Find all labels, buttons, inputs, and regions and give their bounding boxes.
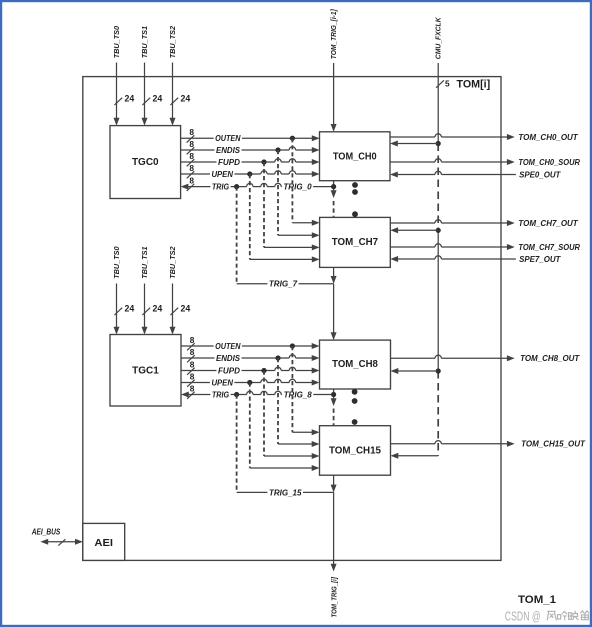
block AEI — [83, 523, 125, 560]
output TOM_TRIG_[i] from TOM_CH15 bottom — [329, 475, 338, 617]
svg-text:ENDIS: ENDIS — [216, 146, 241, 155]
junction dot TRIG drop (TGC0) — [234, 184, 239, 189]
svg-text:8: 8 — [190, 371, 195, 381]
wire FUPD drop to next channel block (TGC0) — [264, 162, 320, 250]
wire TRIG drop / TRIG_7 net (TGC0) — [237, 187, 334, 289]
output TOM_CH8_OUT — [391, 354, 581, 363]
wire TRIG (feedback into TGC1) — [181, 390, 334, 399]
block TGC1 — [110, 335, 181, 407]
wire UPEN drop to next channel block (TGC1) — [250, 383, 320, 472]
wire ENDIS (TGC0 to channels) — [181, 146, 320, 155]
junction dot clock/TOM_CH8 — [436, 368, 441, 373]
bus width slash 8 on TRIG (TGC1) — [187, 383, 195, 398]
caption TOM_1 — [518, 594, 557, 606]
block TOM_CH7 — [320, 217, 391, 267]
input SPE7_OUT — [390, 255, 561, 264]
junction dot OUTEN drop (TGC0) — [290, 136, 295, 141]
wire CMU_FXCLK distribution (clock net) — [437, 144, 439, 456]
svg-text:SPE7_OUT: SPE7_OUT — [519, 255, 561, 264]
wire ENDIS drop to next channel block (TGC1) — [278, 358, 320, 447]
wire clock to TOM_CH15 — [391, 453, 439, 459]
svg-text:8: 8 — [190, 359, 195, 369]
junction dot clock/TOM_CH7 — [436, 228, 441, 233]
junction dot ENDIS drop (TGC1) — [275, 355, 280, 360]
output TOM_CH7_OUT — [390, 219, 579, 228]
svg-text:TOM_1: TOM_1 — [518, 594, 557, 606]
output TOM_CH0_SOUR — [390, 158, 580, 167]
svg-text:TBU_TS2: TBU_TS2 — [168, 246, 177, 278]
svg-text:TRIG_0: TRIG_0 — [283, 183, 312, 192]
label TOM[i] — [457, 79, 491, 91]
wire OUTEN (TGC0 to channels) — [181, 134, 320, 143]
bus width slash 8 on UPEN (TGC1) — [187, 371, 195, 386]
wire clock to TOM_CH7 — [390, 227, 438, 233]
wire TRIG_0 from TOM_CH0 bottom (trigger chain) — [331, 181, 337, 217]
svg-text:TOM_CH0_SOUR: TOM_CH0_SOUR — [518, 158, 580, 167]
input CMU_FXCLK — [434, 17, 443, 144]
svg-text:UPEN: UPEN — [211, 378, 233, 387]
input TBU_TS1 (to TGC0) — [140, 26, 149, 126]
svg-text:TOM_CH7: TOM_CH7 — [332, 236, 378, 248]
ellipsis channels 1..6 — [352, 182, 358, 217]
svg-text:TOM_CH8: TOM_CH8 — [332, 358, 378, 370]
svg-text:TOM_CH8_OUT: TOM_CH8_OUT — [520, 354, 580, 363]
wire FUPD drop to next channel block (TGC1) — [264, 371, 320, 460]
bus width slash 8 on TRIG (TGC0) — [187, 176, 195, 191]
svg-text:TOM_CH7_OUT: TOM_CH7_OUT — [518, 219, 578, 228]
svg-text:24: 24 — [125, 94, 135, 104]
wire ENDIS (TGC1 to channels) — [181, 354, 320, 363]
bus width slash 8 on FUPD (TGC0) — [187, 151, 195, 166]
bus width slash 24 on TBU_TS2 (TGC1) — [170, 304, 190, 316]
svg-text:TBU_TS0: TBU_TS0 — [112, 26, 121, 58]
bus width slash 24 on TBU_TS2 — [170, 94, 190, 106]
wire OUTEN (TGC1 to channels) — [181, 342, 320, 351]
wire TRIG (feedback into TGC0) — [181, 182, 334, 191]
bus width slash 8 on OUTEN (TGC1) — [187, 335, 195, 350]
svg-text:TGC1: TGC1 — [132, 365, 159, 376]
svg-text:5: 5 — [445, 79, 450, 89]
wire FUPD (TGC1 to channels) — [181, 366, 320, 375]
svg-text:TOM_TRIG_[i-1]: TOM_TRIG_[i-1] — [329, 9, 338, 60]
input TOM_TRIG_[i-1] — [329, 9, 338, 132]
bus width slash 8 on OUTEN (TGC0) — [187, 127, 195, 142]
input SPE0_OUT — [390, 170, 562, 179]
wire clock to TOM_CH0 — [390, 141, 438, 147]
svg-text:8: 8 — [190, 347, 195, 357]
bus width slash 24 on TBU_TS0 (TGC1) — [114, 304, 134, 316]
svg-text:TBU_TS1: TBU_TS1 — [140, 26, 149, 58]
svg-text:OUTEN: OUTEN — [215, 342, 241, 351]
svg-text:24: 24 — [153, 94, 163, 104]
svg-text:24: 24 — [181, 94, 191, 104]
input TBU_TS2 (to TGC0) — [168, 26, 177, 126]
label TRIG_8 net — [282, 390, 313, 399]
label TRIG_0 net — [282, 182, 313, 191]
wire OUTEN drop to next channel block (TGC1) — [292, 346, 319, 435]
svg-text:TRIG: TRIG — [212, 390, 229, 399]
bus width slash 8 on UPEN (TGC0) — [187, 163, 195, 178]
svg-text:TBU_TS1: TBU_TS1 — [140, 246, 149, 278]
svg-text:FUPD: FUPD — [218, 158, 240, 167]
svg-text:TOM_TRIG_[i]: TOM_TRIG_[i] — [329, 577, 338, 618]
wire UPEN (TGC0 to channels) — [181, 170, 320, 179]
wire ENDIS drop to next channel block (TGC0) — [278, 150, 320, 238]
input TBU_TS1 (to TGC1) — [140, 246, 149, 334]
watermark — [505, 608, 589, 623]
wire UPEN drop to next channel block (TGC0) — [250, 174, 320, 262]
svg-text:TRIG: TRIG — [212, 183, 229, 192]
junction dot UPEN drop (TGC0) — [247, 171, 252, 176]
block TOM_CH8 — [320, 340, 391, 389]
bus width slash 24 on TBU_TS0 — [114, 94, 134, 106]
wire TRIG drop / TRIG_15 net (TGC1) — [237, 395, 334, 498]
svg-text:8: 8 — [189, 127, 194, 137]
wire AEI_BUS (bidirectional) — [40, 539, 82, 546]
svg-text:TOM_CH0: TOM_CH0 — [333, 151, 377, 163]
input TBU_TS0 (to TGC0) — [112, 26, 121, 126]
svg-text:8: 8 — [190, 335, 195, 345]
junction dot FUPD drop (TGC0) — [261, 159, 266, 164]
block TGC0 — [110, 126, 181, 199]
svg-text:AEI_BUS: AEI_BUS — [31, 527, 61, 536]
svg-text:UPEN: UPEN — [211, 170, 233, 179]
svg-text:TOM_CH7_SOUR: TOM_CH7_SOUR — [518, 243, 580, 252]
svg-text:TRIG_15: TRIG_15 — [269, 488, 302, 497]
label AEI_BUS — [31, 527, 61, 536]
svg-text:TRIG_7: TRIG_7 — [269, 280, 298, 289]
svg-text:OUTEN: OUTEN — [215, 134, 241, 143]
svg-text:TGC0: TGC0 — [132, 157, 159, 168]
svg-text:CSDN @: CSDN @ — [505, 608, 541, 623]
svg-text:TOM_CH15: TOM_CH15 — [329, 444, 381, 456]
svg-text:24: 24 — [153, 304, 163, 314]
bus width slash 24 on TBU_TS1 (TGC1) — [142, 304, 162, 316]
svg-text:TRIG_8: TRIG_8 — [284, 390, 313, 399]
junction dot TRIG drop (TGC1) — [234, 392, 239, 397]
input TBU_TS2 (to TGC1) — [168, 246, 177, 334]
svg-text:24: 24 — [181, 304, 191, 314]
output TOM_CH15_OUT — [391, 440, 587, 449]
module boundary box TOM[i] — [83, 77, 501, 561]
svg-text:24: 24 — [125, 304, 135, 314]
svg-text:TOM_CH0_OUT: TOM_CH0_OUT — [518, 133, 578, 142]
svg-text:8: 8 — [189, 176, 194, 186]
junction dot UPEN drop (TGC1) — [247, 380, 252, 385]
junction dot ENDIS drop (TGC0) — [275, 147, 280, 152]
svg-text:TBU_TS2: TBU_TS2 — [168, 26, 177, 58]
block TOM_CH15 — [320, 426, 391, 476]
wire UPEN (TGC1 to channels) — [181, 378, 320, 387]
output TOM_CH7_SOUR — [390, 243, 580, 252]
svg-text:8: 8 — [190, 383, 195, 393]
bus width slash 8 on FUPD (TGC1) — [187, 359, 195, 374]
svg-text:TBU_TS0: TBU_TS0 — [112, 246, 121, 278]
svg-text:ENDIS: ENDIS — [216, 354, 241, 363]
svg-text:FUPD: FUPD — [218, 366, 240, 375]
wire FUPD (TGC0 to channels) — [181, 158, 320, 167]
svg-text:TOM[i]: TOM[i] — [457, 79, 491, 91]
wire OUTEN drop to next channel block (TGC0) — [292, 138, 319, 226]
wire clock to TOM_CH8 — [391, 368, 439, 374]
output TOM_CH0_OUT — [390, 133, 579, 142]
wire TRIG_8 from TOM_CH8 bottom (trigger chain) — [331, 389, 337, 425]
bus width slash 24 on TBU_TS1 — [142, 94, 162, 106]
junction dot OUTEN drop (TGC1) — [290, 343, 295, 348]
svg-text:AEI: AEI — [94, 537, 113, 549]
svg-text:8: 8 — [189, 151, 194, 161]
wire trigger chain TOM_CH7 bottom to TRIG_7 and TOM_CH8 — [331, 267, 337, 340]
input TBU_TS0 (to TGC1) — [112, 246, 121, 334]
ellipsis channels 9..14 — [352, 389, 358, 425]
svg-text:8: 8 — [189, 163, 194, 173]
block TOM_CH0 — [320, 132, 391, 181]
svg-text:8: 8 — [189, 139, 194, 149]
bus width slash 8 on ENDIS (TGC1) — [187, 347, 195, 362]
bus width slash 5 on CMU_FXCLK — [436, 79, 450, 89]
junction dot clock/TOM_CH0 — [436, 141, 441, 146]
svg-text:SPE0_OUT: SPE0_OUT — [519, 170, 561, 179]
bus width slash 8 on ENDIS (TGC0) — [187, 139, 195, 154]
svg-text:TOM_CH15_OUT: TOM_CH15_OUT — [521, 440, 586, 449]
svg-text:CMU_FXCLK: CMU_FXCLK — [434, 17, 443, 59]
junction dot FUPD drop (TGC1) — [261, 368, 266, 373]
